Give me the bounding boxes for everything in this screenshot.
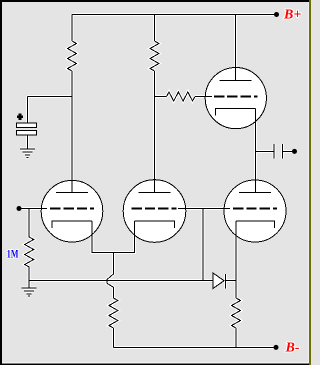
resistor R1 (left plate load): [68, 15, 77, 193]
wire V3 grid to V4 grid: [178, 208, 230, 210]
frame top black border: [0, 0, 309, 2]
wire grid node down to ground bus: [202, 209, 204, 281]
wire white casings: [19, 15, 295, 348]
ground (below C1): [20, 149, 35, 157]
svg-text:B+: B+: [283, 8, 301, 23]
wire V1 plate to B+ rail: [235, 15, 237, 81]
frame bottom black border: [0, 364, 309, 365]
wire V1 cathode to V4 plate: [255, 109, 257, 193]
tube V3 envelope (middle): [123, 180, 186, 243]
tube V3 electrodes: [132, 193, 177, 229]
wire R3 to V1 grid: [195, 96, 212, 98]
resistor R4 (tail resistor to B-): [109, 298, 118, 348]
capacitor C1 (polarized bypass): [17, 97, 37, 150]
tube V1 electrodes: [214, 81, 258, 116]
wire ground bus: [29, 280, 213, 282]
resistor R5 (to B- rail): [232, 298, 241, 348]
tube V1 envelope (top): [205, 68, 266, 129]
wire input to V2 grid: [19, 208, 47, 210]
terminal B-: [274, 345, 279, 350]
wire B+ rail: [72, 14, 276, 16]
wire plate node to C1: [28, 96, 73, 98]
wire V2/V3 cathode junction: [92, 221, 135, 253]
ground (below R6): [22, 281, 37, 297]
terminal input: [17, 206, 22, 211]
resistor R6 1M (grid leak): [25, 209, 34, 281]
wire B- rail: [113, 347, 276, 349]
tube V4 envelope (lower output): [224, 180, 286, 242]
tube V2 envelope (input left): [41, 180, 103, 242]
wire V4 cathode down to R5: [235, 221, 237, 298]
frame bottom white highlight: [2, 363, 309, 364]
resistor R3 (horizontal, to V1 grid): [155, 92, 196, 101]
terminal B+: [274, 12, 279, 17]
terminal output: [292, 149, 297, 154]
svg-text:B-: B-: [285, 341, 300, 356]
diode D1: [213, 273, 236, 289]
wire cathode junction to R4 (hop over ground bus): [107, 253, 113, 299]
frame right olive strip: [309, 0, 311, 365]
svg-text:1M: 1M: [7, 246, 19, 260]
tube V4 electrodes: [233, 193, 277, 229]
tube V2 electrodes: [50, 193, 94, 229]
frame right white highlight: [308, 2, 309, 364]
capacitor C2 (output coupling): [274, 144, 295, 159]
resistor R2 (center plate load): [150, 15, 159, 193]
wire output tap to C2: [256, 151, 275, 153]
frame left black border: [0, 0, 2, 365]
